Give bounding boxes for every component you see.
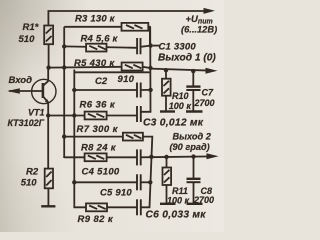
resistor R6 (85, 112, 107, 120)
node: V1/R4 junction (62, 44, 66, 48)
svg-text:2700: 2700 (193, 195, 214, 205)
wire: +U supply top rail (48, 11, 206, 26)
wire: C8 bottom bar (187, 203, 203, 205)
capacitor C2 (136, 83, 138, 98)
resistor R9 (86, 203, 107, 211)
svg-text:100 к: 100 к (169, 101, 192, 111)
node: C1 rail junction (149, 43, 153, 47)
resistor R1 (44, 26, 53, 45)
node: emitter/R6 junction (46, 113, 50, 117)
node: rail2/C5 junction (148, 180, 152, 184)
node: V1 junction on collector row (62, 65, 66, 69)
paper background (0, 0, 224, 232)
ground (41, 205, 55, 207)
resistor R10 (165, 70, 167, 79)
svg-text:VT1: VT1 (28, 107, 45, 117)
wire: R9 row (74, 205, 137, 207)
wire: output1 row (151, 69, 213, 71)
svg-text:C1 3300: C1 3300 (159, 42, 197, 53)
wire: C1 label leader (153, 45, 160, 47)
svg-text:Выход 1 (0): Выход 1 (0) (158, 53, 216, 64)
resistor R3 (122, 23, 149, 31)
node: out1 arrow (206, 68, 218, 74)
node: V1/R7 junction (62, 134, 66, 138)
wire: R2 to ground (47, 188, 49, 206)
wire: R10 bottom bar (160, 110, 175, 112)
capacitor C7 (192, 71, 194, 86)
capacitor C6 (136, 199, 138, 215)
capacitor C3 (136, 106, 138, 122)
node: V2/C2 junction (72, 88, 76, 92)
svg-text:R8 24 к: R8 24 к (81, 143, 117, 154)
svg-text:(90 град): (90 град) (170, 142, 210, 152)
wire: R6 row (48, 115, 137, 117)
node: R10 junction (164, 68, 168, 72)
node: out2 arrow (207, 153, 219, 159)
node: collector junction at R1 (46, 65, 50, 69)
svg-text:910: 910 (118, 74, 135, 85)
svg-text:R10: R10 (172, 91, 189, 101)
node: rail2/out2 junction (149, 155, 153, 159)
svg-text:R11: R11 (172, 186, 188, 196)
capacitor C5 (136, 174, 138, 190)
capacitor C1 (136, 38, 138, 54)
wire: right rail upper (141, 27, 151, 112)
svg-text:R5 430 к: R5 430 к (74, 58, 115, 69)
wire: V2 top wire to rail (74, 71, 150, 73)
svg-text:C3 0,012 мк: C3 0,012 мк (143, 117, 204, 128)
node: V2/R6 junction (72, 113, 76, 117)
svg-text:R1*: R1* (23, 22, 40, 33)
wire: R11 bottom bar (160, 203, 176, 205)
wire: C2 row (74, 89, 137, 91)
node: rail/R5 junction (148, 66, 152, 70)
wire: V2 vertical rail (73, 70, 75, 205)
transistor VT1 (32, 79, 56, 103)
resistor R2 (45, 169, 53, 189)
capacitor C8 (193, 157, 195, 179)
svg-text:КТ3102Г: КТ3102Г (8, 118, 45, 128)
svg-text:R2: R2 (26, 167, 39, 178)
wire: R7 row (64, 136, 123, 138)
resistor R8 (85, 153, 107, 161)
wire: R8 row / output 2 (64, 156, 137, 159)
wire: R4 row (64, 46, 137, 47)
svg-text:(6...12В): (6...12В) (181, 24, 217, 34)
node: R11 junction (164, 155, 168, 159)
resistor R4 (86, 44, 106, 52)
resistor R11 (166, 157, 168, 168)
svg-text:C7: C7 (202, 88, 214, 98)
wire: C5 row (74, 181, 137, 183)
svg-text:R6 36 к: R6 36 к (80, 99, 116, 110)
svg-text:C2: C2 (95, 76, 108, 87)
resistor R7 (123, 133, 143, 141)
node: supply arrow (204, 8, 216, 14)
resistor R5 (122, 63, 143, 71)
wire: V1 vertical rail (63, 27, 65, 158)
wire: input with arrow (9, 90, 43, 92)
svg-text:C4 5100: C4 5100 (82, 167, 120, 178)
node: C8 junction (191, 154, 195, 158)
wire: collector row to R5 (49, 66, 122, 69)
svg-text:Вход: Вход (9, 75, 33, 86)
wire: R5 right lead to rail (143, 67, 151, 68)
svg-text:R7 300 к: R7 300 к (77, 124, 119, 135)
svg-text:R4 5,6 к: R4 5,6 к (81, 34, 119, 45)
wire: R1 bottom to collector node (48, 44, 50, 67)
wire: emitter lead down (47, 102, 49, 168)
svg-text:2700: 2700 (194, 98, 215, 108)
svg-text:510: 510 (19, 34, 36, 45)
node: rail/C2 junction (148, 88, 152, 92)
wire: C7 bottom bar (186, 110, 203, 112)
svg-text:100 к: 100 к (167, 196, 190, 206)
svg-text:R9 82 к: R9 82 к (78, 214, 114, 225)
wire: R3 row (64, 27, 150, 46)
svg-text:C5 910: C5 910 (100, 188, 132, 199)
svg-text:C6 0,033 мк: C6 0,033 мк (146, 210, 207, 221)
capacitor C4 (136, 149, 138, 165)
wire: collector lead (47, 68, 49, 81)
svg-text:Выход 2: Выход 2 (173, 132, 212, 142)
svg-text:510: 510 (21, 177, 38, 188)
node: V2/C5 junction (72, 180, 76, 184)
svg-text:R3 130 к: R3 130 к (75, 14, 116, 25)
node: C7 junction (191, 69, 195, 73)
wire: R7 to lower rail (141, 137, 153, 208)
